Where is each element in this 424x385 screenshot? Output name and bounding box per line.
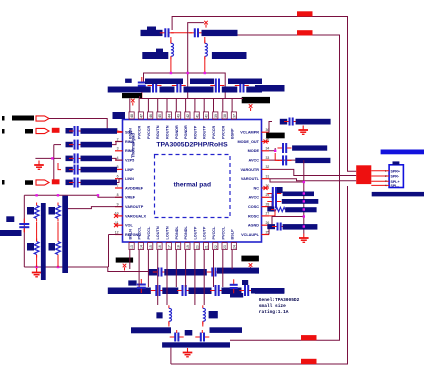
wire top pin drop x=158 [157, 99, 159, 112]
power marker top center [204, 21, 208, 28]
capacitor C_dec4 [235, 79, 249, 93]
svg-text:46: 46 [149, 114, 153, 118]
wire L2 top lead [204, 37, 206, 43]
U1 pin 26 stub [262, 224, 270, 226]
svg-text:PVCCL: PVCCL [212, 226, 216, 240]
wire OUT loop A right side [172, 17, 356, 172]
svg-text:PGNDR: PGNDR [184, 125, 188, 139]
net label LINN bus [81, 180, 118, 186]
net stub tick row2 [2, 129, 5, 134]
svg-text:17: 17 [167, 245, 171, 249]
net label LOUTN out [131, 327, 171, 333]
svg-text:22: 22 [214, 245, 218, 249]
wire RINN to pin1 [117, 130, 123, 133]
wire pin26 AGND [269, 217, 304, 226]
svg-text:21: 21 [205, 245, 209, 249]
net label LIN [25, 180, 33, 185]
U1 pin 47 stub [138, 112, 140, 120]
capacitor C_decL2 [177, 285, 191, 296]
net label C-in left [66, 128, 73, 134]
wire bottom pin drop x=176 [175, 250, 177, 288]
U1 pin 1 stub [115, 131, 123, 133]
capacitor C_BSR [207, 268, 221, 277]
svg-text:PVCCR: PVCCR [138, 125, 142, 139]
net label left edge small [6, 216, 14, 222]
connector RINN input arrow [36, 128, 49, 133]
svg-text:SPR-: SPR- [391, 175, 400, 179]
net label small AVCC29 [277, 187, 283, 193]
wire bottom pin drop x=232 [231, 250, 233, 270]
net label V2P5 bus [81, 156, 113, 162]
capacitor C_dec1 [148, 79, 162, 93]
net stub tick row6 [2, 180, 5, 185]
U1 pin 25 stub [262, 234, 270, 236]
net label L1 net [142, 52, 168, 59]
U1 pin 16 number box [157, 243, 162, 250]
wire L2 bottom lead [204, 56, 206, 73]
svg-text:42: 42 [186, 114, 190, 118]
svg-text:LOUTN: LOUTN [166, 226, 170, 239]
wire bottom pin drop x=223 [222, 250, 224, 288]
net label row3 [66, 142, 73, 148]
U1 pin 28 stub [262, 206, 270, 208]
U1 pin 20 stub [194, 242, 196, 250]
net stub tick row1 [2, 116, 5, 121]
net flag red bottom B [301, 335, 317, 340]
net label net27 [285, 207, 316, 212]
svg-text:Genel:TPA3005D2: Genel:TPA3005D2 [259, 297, 300, 303]
wire outcap2 lead [201, 330, 203, 333]
svg-text:4: 4 [117, 156, 119, 160]
wire VAROUTL to connector [269, 179, 356, 181]
net label R_OSC value [267, 207, 274, 212]
wire R1-R3 series [36, 222, 38, 241]
junction AGND d [303, 208, 305, 210]
U1 pin 9 stub [115, 206, 123, 208]
no-connect X pin11 VOL [114, 223, 118, 227]
wire bottom pin drop x=148 [147, 250, 149, 288]
ferrite block FB1 red [356, 165, 371, 184]
U1 pin 8 stub [115, 196, 123, 198]
U1 pin 23 number box [222, 243, 227, 250]
net label R3 value [27, 243, 34, 251]
net label LINP bus [81, 167, 118, 173]
U1 pin 4 stub [115, 159, 123, 161]
svg-text:27: 27 [266, 212, 270, 216]
svg-text:LOUTN: LOUTN [156, 226, 160, 239]
U1 pin 35 stub [262, 141, 270, 143]
U1 pin 23 stub [222, 242, 224, 250]
net flag red top A [297, 11, 313, 16]
wire L1 top lead [170, 37, 172, 43]
svg-text:VCLAUPL: VCLAUPL [241, 233, 260, 237]
U1 pin 31 stub [262, 178, 270, 180]
net label GND bus bottom [162, 342, 230, 347]
ground VCLAMPR [298, 126, 308, 135]
net label VREF bar [0, 230, 22, 236]
U1 pin 41 stub [194, 112, 196, 120]
net label BSLN [148, 269, 157, 276]
U1 pin 21 number box [203, 243, 208, 250]
junction [35, 194, 37, 196]
U1 pin 33 stub [262, 159, 270, 161]
U1 pin 42 stub [185, 112, 187, 120]
svg-text:PVCCR: PVCCR [221, 125, 225, 139]
U1 pin 5 stub [115, 168, 123, 170]
wire bottom pin drop x=214 [213, 250, 215, 288]
wire volume bottom rail to bootstrap row [24, 267, 150, 272]
capacitor C_bulk polarized [138, 77, 146, 91]
net label PVCCL e [251, 288, 285, 294]
wire top pin drop x=223 [222, 99, 224, 112]
capacitor C_AVCC1 [278, 143, 292, 153]
U1 pin 38 stub [222, 112, 224, 120]
U1 pin 6 stub [115, 178, 123, 180]
net flag red bottom A [301, 359, 317, 364]
wire top pin drop x=167 [166, 99, 168, 112]
net label at U1 corner [113, 112, 126, 119]
U1 pin 21 stub [203, 242, 205, 250]
U1 pin 27 stub [262, 215, 270, 217]
U1 pin 43 number box [176, 112, 181, 119]
no-connect X pin10 [114, 214, 118, 218]
U1 pin 10 stub [115, 215, 123, 217]
svg-text:9: 9 [117, 202, 119, 206]
wire bottom pin drop x=158 [157, 250, 159, 306]
net label small above strip [125, 79, 132, 83]
svg-text:8: 8 [117, 193, 119, 197]
svg-text:BSLP: BSLP [231, 229, 235, 240]
inductor L_L1 [169, 305, 172, 324]
wire pin27 ROSC [269, 210, 275, 216]
U1 pin 15 number box [148, 243, 153, 250]
wire V2P5 to pin4 [112, 158, 123, 160]
junction AVCC1 [274, 150, 276, 152]
power marker right [249, 104, 253, 111]
U1 pin 38 number box [222, 112, 227, 119]
net label above notes [255, 290, 284, 294]
U1 pin 40 stub [203, 112, 205, 120]
wire to pin8 VREF [98, 195, 123, 197]
U1 pin 15 stub [147, 242, 149, 250]
junction near pin8 [97, 194, 99, 196]
net label boot mid [164, 269, 207, 276]
svg-text:BSRP: BSRP [231, 128, 235, 139]
inductor L_R2 [205, 40, 208, 59]
capacitor C_dec3 [210, 79, 224, 93]
capacitor C_V2P5 [69, 153, 83, 163]
wire volume left vertical [23, 195, 25, 267]
svg-text:LINN: LINN [125, 177, 134, 181]
net label PVCCL b [162, 288, 178, 295]
capacitor C_bulkL [137, 279, 146, 293]
U1 pin 40 number box [203, 112, 208, 119]
U1 pin 19 number box [185, 243, 190, 250]
svg-text:34: 34 [266, 147, 270, 151]
net label speaker bottom [372, 192, 424, 197]
wire top pin drop x=139 [138, 99, 140, 112]
svg-text:thermal pad: thermal pad [174, 182, 211, 189]
svg-text:41: 41 [195, 114, 199, 118]
U1 pin 12 stub [115, 234, 123, 236]
U1 pin 45 number box [157, 112, 162, 119]
net label net29 [283, 192, 314, 197]
net label PVCC bar1d [222, 87, 238, 93]
U1 pin 44 number box [166, 112, 171, 119]
svg-text:LINP: LINP [125, 168, 134, 172]
svg-text:LOUTP: LOUTP [203, 226, 207, 239]
capacitor C_LINN [69, 178, 83, 188]
capacitor C_OSC [267, 195, 281, 208]
svg-text:13: 13 [130, 245, 134, 249]
U1 pin 42 number box [185, 112, 190, 119]
power marker bottom-left [123, 264, 127, 271]
connector J_SPK pin 1 stub [371, 170, 389, 172]
wire cap to bar [23, 229, 25, 232]
junction [204, 72, 206, 74]
connector J_SPK pin 4 stub [371, 184, 389, 186]
svg-text:16: 16 [158, 245, 162, 249]
svg-text:19: 19 [186, 245, 190, 249]
U1 pin 13 stub [129, 242, 131, 250]
net label black left PVCC [122, 93, 142, 98]
net label outcap mid [185, 330, 193, 336]
net label net28 [282, 199, 319, 204]
wire center vertical lower [187, 73, 189, 99]
svg-text:PGNDL: PGNDL [184, 226, 188, 240]
svg-text:ROUTP: ROUTP [193, 125, 197, 139]
no-connect X pin35 [264, 140, 268, 144]
wire top pin drop x=148 [147, 99, 149, 112]
U1 pin 37 number box [231, 112, 236, 119]
net label row5 [66, 167, 73, 173]
U1 pin 22 stub [213, 242, 215, 250]
svg-text:BSRN: BSRN [128, 128, 132, 139]
svg-text:32: 32 [266, 165, 270, 169]
wire L1 bottom lead [170, 56, 172, 73]
capacitor C_dec2 [172, 79, 186, 93]
resistor R_OSC [271, 207, 288, 211]
wire bottom pin drop x=204 [203, 250, 205, 306]
wire C_bulk lead down [141, 88, 143, 98]
svg-text:28: 28 [266, 202, 270, 206]
U1 pin 44 stub [166, 112, 168, 120]
U1 pin 39 number box [213, 112, 218, 119]
wire between snubber caps [171, 32, 192, 34]
svg-text:31: 31 [266, 175, 270, 179]
U1 pin 19 stub [185, 242, 187, 250]
svg-text:SPL-: SPL- [391, 184, 400, 188]
wire bus left end up [139, 96, 141, 99]
junction [35, 266, 37, 268]
net label black mode [266, 133, 285, 139]
net label PVCCL d [222, 288, 242, 295]
net label ROUTN ascender [147, 27, 156, 31]
junction AGND b [303, 192, 305, 194]
svg-text:PVCCL: PVCCL [221, 226, 225, 240]
net label RINN bus [81, 128, 118, 134]
net flag LINN red label [52, 179, 60, 184]
U1 pin 2 stub [115, 141, 123, 143]
svg-text:AVCC: AVCC [249, 159, 260, 163]
U1 pin 24 stub [231, 242, 233, 250]
wire row3 left lead [54, 144, 61, 146]
net label R1 value [27, 207, 34, 215]
svg-text:23: 23 [223, 245, 227, 249]
wire volume top rail [24, 194, 98, 196]
wire R2-R4 series [57, 222, 59, 241]
wire pin36 to VCLAMPR cap [269, 122, 272, 133]
capacitor C_outL2 [195, 333, 209, 342]
svg-text:rating:1.1A: rating:1.1A [259, 309, 289, 315]
U1 pin 16 stub [157, 242, 159, 250]
svg-text:33: 33 [266, 156, 270, 160]
svg-text:24: 24 [233, 245, 237, 249]
connector LINN input arrow [36, 180, 49, 185]
wire bottom pin drop x=195 [194, 250, 196, 306]
wire pin25 VCLAMPL [269, 227, 272, 235]
svg-text:20: 20 [195, 245, 199, 249]
net label PVCCL c [189, 288, 212, 295]
svg-text:VREF: VREF [125, 196, 136, 200]
net label LOUTP out [210, 327, 243, 333]
net label L2 net [212, 52, 247, 59]
wire bus right join [224, 94, 226, 99]
U1 pin 39 stub [213, 112, 215, 120]
capacitor C_decL3 [210, 285, 224, 296]
U1 pin 14 stub [138, 242, 140, 250]
svg-text:TPA3005D2PHP/RoHS: TPA3005D2PHP/RoHS [156, 142, 228, 149]
junction AGND f [303, 225, 305, 227]
ground bottom output [183, 348, 193, 357]
wire pin28 COSC [269, 202, 272, 207]
connector J-SD input arrow [36, 116, 49, 121]
net label row6 [66, 180, 73, 186]
U1 pin 18 number box [176, 243, 181, 250]
inductor L_L2 [203, 305, 206, 324]
svg-text:RINP: RINP [125, 149, 135, 153]
U1 pin 30 stub [262, 187, 270, 189]
wire OUT loop C left-bottom [171, 186, 348, 364]
svg-text:18: 18 [177, 245, 181, 249]
wire PVCC bus top [144, 73, 226, 94]
capacitor C_VCLAMPR [284, 118, 298, 126]
svg-text:NC: NC [254, 186, 260, 190]
ground AGND [299, 234, 309, 243]
U1 pin 45 stub [157, 112, 159, 120]
svg-text:VAROUTP: VAROUTP [125, 205, 144, 209]
wire bottom pin drop x=130 [129, 250, 131, 270]
wire pin33 to cap row2 [269, 159, 304, 161]
svg-text:PVCCR: PVCCR [147, 125, 151, 139]
svg-text:AVCC: AVCC [249, 196, 260, 200]
U1 pin 14 number box [138, 243, 143, 250]
capacitor C_BSL [153, 268, 167, 277]
capacitor C_RINN [69, 126, 83, 136]
wire RINP to pin2 [112, 142, 123, 145]
net label PVCC bar1c [184, 87, 214, 93]
wire pin12 REFGND [109, 234, 123, 236]
U1 pin 46 stub [147, 112, 149, 120]
wire R3 to bottom [36, 255, 38, 267]
capacitor C_snub1 [160, 28, 174, 37]
U1 pin 47 number box [138, 112, 143, 119]
net label black bottom-right [241, 256, 259, 262]
net label R2 value [49, 207, 56, 215]
svg-text:BSLN: BSLN [128, 229, 132, 240]
power marker bottom-right [249, 263, 253, 270]
net label SHUTDOWN [12, 116, 34, 121]
net label AVCC1 [292, 145, 327, 150]
wire LINN to pin6 [117, 179, 123, 183]
wire pin34 to cap row1 [269, 148, 275, 151]
net flag red top B [297, 30, 313, 35]
svg-text:15: 15 [149, 245, 153, 249]
wire top pin drop x=176 [175, 99, 177, 112]
net label PVCC bar2b [190, 79, 214, 85]
svg-text:LOUTP: LOUTP [193, 226, 197, 239]
net flag RINN red label [52, 128, 60, 133]
capacitor C_VCLAMPL [272, 223, 286, 231]
svg-text:ROUTN: ROUTN [156, 125, 160, 139]
U1 pin 48 stub [129, 112, 131, 120]
net label L_L1 value [156, 312, 162, 318]
net label R4 value [49, 243, 56, 251]
junction AVCC2 [303, 159, 305, 161]
wire top pin drop x=232 [231, 99, 233, 112]
U1 pin 32 stub [262, 168, 270, 170]
net label AVCC right [255, 85, 285, 92]
capacitor C_snub2 [189, 28, 203, 37]
capacitor C_vref bypass [19, 219, 29, 233]
wire to pin9 [68, 207, 123, 209]
svg-text:SPR+: SPR+ [391, 169, 401, 173]
svg-text:VCLAMPR: VCLAMPR [240, 131, 259, 135]
net label PVCCL f step [230, 293, 243, 298]
net label AVCC2 [295, 158, 330, 163]
wire row5 lead [58, 163, 61, 170]
ground left input [34, 161, 44, 170]
U1 pin 36 stub [262, 131, 270, 133]
junction AGND c [303, 200, 305, 202]
wire top pin drop x=204 [203, 99, 205, 112]
svg-text:43: 43 [177, 114, 181, 118]
ground volume network [32, 268, 42, 277]
svg-text:small size: small size [259, 303, 286, 309]
svg-text:12: 12 [115, 230, 119, 234]
resistor R_vol2 upper-right [56, 203, 61, 222]
U1 pin 48 number box [129, 112, 134, 119]
net label vertical VOLUME2 [62, 196, 68, 273]
svg-text:6: 6 [117, 175, 119, 179]
svg-text:40: 40 [205, 114, 209, 118]
svg-text:PVCCL: PVCCL [147, 226, 151, 240]
connector J_SPK outline [389, 165, 403, 188]
net label RIN [25, 129, 33, 134]
svg-text:45: 45 [158, 114, 162, 118]
wire center vertical to marker [188, 23, 204, 73]
wire outcap1 lead [176, 330, 178, 333]
svg-text:MODE: MODE [248, 149, 260, 153]
wire top pin bus [140, 98, 243, 100]
connector J_SPK pin 2 stub [371, 175, 389, 177]
U1 pin 3 stub [115, 150, 123, 152]
svg-text:ROUTP: ROUTP [203, 125, 207, 139]
net label PVCC bar1e [246, 87, 262, 93]
wire R4 to bottom [57, 255, 59, 267]
U1 pin 34 stub [262, 150, 270, 152]
U1 pin 17 number box [166, 243, 171, 250]
